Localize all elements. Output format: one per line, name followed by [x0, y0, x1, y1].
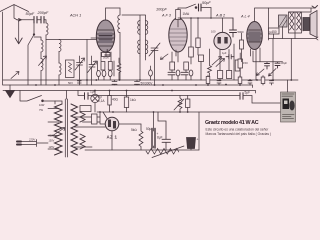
electrolytic block — [279, 15, 288, 27]
svg-text:50/300V: 50/300V — [141, 82, 154, 86]
OT winding X pattern right — [297, 12, 302, 30]
resistor box x191 — [189, 47, 194, 57]
secondary taps — [74, 117, 105, 147]
svg-text:5kΩ: 5kΩ — [131, 128, 137, 132]
svg-text:150: 150 — [243, 61, 248, 65]
svg-text:50µ: 50µ — [146, 127, 152, 131]
IFT1 wires down — [140, 56, 146, 80]
svg-text:1kΩ: 1kΩ — [130, 98, 136, 102]
cap below AL4 a — [265, 64, 270, 70]
resistor R11 — [124, 97, 128, 108]
speaker top wire — [289, 11, 312, 13]
svg-text:50pF: 50pF — [26, 12, 35, 16]
svg-text:150V: 150V — [49, 140, 55, 143]
resistor R3 zigzag — [117, 58, 121, 80]
fuse box 2 — [92, 114, 98, 124]
coupling box label — [269, 28, 280, 34]
oval cap AF3 b — [189, 70, 193, 76]
svg-text:30µF: 30µF — [281, 61, 287, 65]
svg-text:40Ω: 40Ω — [112, 98, 119, 102]
primary taps — [48, 109, 59, 150]
resistor R13 below AF3 — [170, 62, 175, 70]
svg-text:1MΩ: 1MΩ — [183, 12, 190, 16]
resistor R10 — [108, 96, 111, 106]
resistor R4 1M on riser — [176, 10, 181, 20]
svg-text:5000: 5000 — [238, 30, 244, 34]
svg-text:200pF: 200pF — [37, 11, 49, 15]
capacitor 1uF line — [78, 91, 240, 96]
resistor R2 below ACH1 — [108, 62, 112, 71]
cap below AF3 a — [168, 72, 175, 75]
gang trimmer A arrow — [75, 58, 85, 70]
electrolytic cap 1 — [152, 129, 155, 149]
resistor R1 below ACH1 — [101, 62, 105, 71]
transformer heater winding — [80, 107, 85, 149]
oscillator coil 2 upper — [59, 40, 61, 52]
IFT1 trimmer capacitor — [149, 43, 160, 56]
mains plug — [20, 140, 48, 147]
coil L4 (osc grid coil) — [119, 8, 121, 15]
padder arrow — [39, 56, 47, 66]
photo riser — [287, 80, 289, 92]
bypass cap oval 3 — [108, 70, 112, 76]
svg-text:220V: 220V — [28, 138, 35, 142]
resistor box x198 — [196, 38, 200, 48]
ground wire — [18, 20, 20, 44]
transformer primary winding — [55, 104, 63, 155]
heater line to photo — [97, 111, 281, 113]
switch blade top — [186, 4, 196, 8]
AF3 cluster wires — [172, 62, 201, 81]
wire risers right — [273, 39, 291, 81]
ground arrow — [15, 38, 22, 44]
wire y40 — [269, 34, 317, 39]
OT to speaker bottom wire — [294, 33, 296, 39]
tone switch blade 2 — [269, 69, 277, 77]
svg-text:5000: 5000 — [103, 56, 109, 60]
svg-text:50pF: 50pF — [202, 1, 211, 5]
bypass cap oval 1 — [97, 70, 101, 76]
tube AF3 (IF amp) — [169, 18, 187, 52]
OT winding X pattern left — [290, 12, 295, 30]
antenna arrow — [17, 19, 22, 22]
svg-text:1µF: 1µF — [222, 51, 227, 55]
power transformer core — [65, 91, 67, 158]
components right of AB2 — [233, 44, 235, 80]
oscillator trimmer box — [66, 60, 75, 78]
tube AF3 top cap riser — [177, 8, 179, 27]
capacitor 5uF — [240, 93, 243, 99]
output terminal arrow — [312, 6, 318, 9]
ON/OFF switch — [20, 91, 55, 105]
IFT1 coil primary bottom — [138, 40, 140, 54]
wire coil down — [45, 40, 47, 86]
electrolytic can — [187, 138, 196, 149]
voltage selector arrow — [52, 128, 65, 137]
photo of connector — [281, 92, 296, 122]
wire to AB2 top — [222, 18, 224, 33]
svg-text:Graetz modelo 41 W AC: Graetz modelo 41 W AC — [205, 120, 259, 126]
oscillator coil 2 lower — [59, 63, 61, 75]
svg-text:µ450: µ450 — [270, 30, 277, 34]
wire to antenna coil — [44, 20, 46, 23]
resistor plate AB2 — [240, 40, 244, 49]
chassis ground symbol — [9, 85, 11, 91]
oval cap IFT1 — [149, 70, 153, 76]
capacitor C1 50pF — [34, 17, 37, 24]
svg-text:Marcos Tartanowski del pais It: Marcos Tartanowski del pais Italia ( Gra… — [206, 132, 272, 136]
long vertical x87 — [86, 40, 88, 86]
cap between rails x117 — [112, 80, 117, 85]
AL4 pins — [251, 48, 261, 80]
left edge wire — [2, 12, 4, 85]
wire y62 below AL4 — [253, 51, 283, 63]
IFT1 coil secondary bottom — [146, 40, 148, 54]
tube AL4 (output pentode) — [247, 22, 263, 50]
tube ACH1 top cap wire — [106, 8, 121, 20]
speaker — [303, 18, 310, 31]
gang trimmer B arrow — [88, 61, 97, 73]
svg-text:0,1A: 0,1A — [98, 99, 105, 103]
cap above zigzag — [158, 112, 171, 150]
heater bus 2 — [3, 91, 256, 94]
cap between rails x137 — [135, 80, 140, 85]
small box right — [199, 55, 204, 62]
svg-text:100: 100 — [211, 30, 216, 34]
tube ACH1 cathode pins — [101, 52, 111, 61]
resistor R7 zigzag — [208, 49, 212, 80]
50V cap — [77, 81, 81, 83]
svg-text:A L 4: A L 4 — [240, 15, 250, 19]
svg-text:8µF: 8µF — [157, 136, 163, 140]
cap below AL4 b — [275, 63, 280, 68]
oscillator coil 1 upper — [34, 37, 41, 40]
capacitor C2 200pF — [41, 17, 44, 24]
svg-text:A F 3: A F 3 — [161, 14, 172, 18]
IFT1 coil secondary top — [146, 20, 148, 34]
svg-text:220V: 220V — [49, 135, 55, 138]
capacitor C3 top 50pF — [199, 4, 202, 11]
svg-text:A B 2: A B 2 — [215, 14, 226, 18]
top output wire — [269, 8, 316, 12]
output transformer — [289, 12, 302, 33]
filter resistor 5k — [139, 124, 143, 150]
capacitor C4 at AB2 — [230, 18, 237, 37]
svg-text:50V: 50V — [68, 81, 73, 85]
wire antenna to caps — [22, 19, 35, 21]
AZ1 wires — [100, 112, 141, 150]
AB2 lower wires — [220, 50, 229, 71]
resistor R12 — [186, 99, 190, 108]
tube ACH1 grid side wire — [91, 37, 96, 39]
antenna coil — [46, 23, 48, 35]
IFT1 coil primary top — [138, 20, 140, 34]
tube ACH1 (mixer) — [96, 20, 114, 52]
oscillator coil 1 lower — [41, 59, 43, 71]
resistor R8 cathode — [238, 59, 243, 68]
capacitor 1uF AB2 — [226, 55, 234, 60]
svg-text:5µF: 5µF — [245, 91, 251, 95]
oval cap AF3 a — [176, 70, 180, 76]
wire — [201, 8, 211, 19]
svg-text:7W: 7W — [39, 108, 43, 112]
fuse box 1 — [80, 106, 91, 112]
screen shield frame — [98, 61, 115, 76]
svg-text:ACH 1: ACH 1 — [69, 14, 81, 18]
AF3 pins — [172, 50, 178, 62]
wire coil to grid — [46, 35, 96, 40]
volume potentiometer — [178, 96, 182, 113]
grid resistor network AB2 — [191, 18, 198, 64]
bypass cap oval 2 — [102, 70, 106, 76]
band switch — [28, 20, 34, 85]
B+ rail — [3, 79, 298, 81]
svg-text:10W: 10W — [39, 103, 45, 107]
wire y18 — [178, 17, 233, 19]
tone switch blade 1 — [257, 69, 265, 76]
rectifier tube AZ1 — [105, 117, 119, 131]
svg-text:100pF: 100pF — [156, 8, 167, 12]
transformer secondary HV winding — [71, 104, 78, 155]
wave switch arrow — [11, 72, 19, 79]
AB2 diode plate 1 — [218, 37, 221, 44]
cluster wires — [99, 70, 111, 80]
resistor R5 — [218, 71, 223, 79]
svg-text:125V: 125V — [49, 146, 55, 149]
capacitor C5 5000 — [105, 50, 110, 56]
resistor R14 below AF3 — [184, 62, 189, 70]
gang trimmer A plates — [77, 63, 83, 66]
cap below AF3 b — [181, 72, 188, 75]
diode arrows — [212, 57, 222, 66]
svg-text:1µF: 1µF — [90, 90, 96, 94]
antenna — [0, 5, 29, 20]
AB2 diode plate 2 — [224, 37, 227, 44]
resistor R6 — [227, 71, 232, 79]
wire AL4 top bridge — [255, 8, 269, 40]
bottom bus — [85, 149, 199, 151]
gang trimmer B plates — [89, 65, 95, 68]
svg-text:AZ 1: AZ 1 — [107, 135, 118, 140]
pilot lamp — [91, 94, 99, 102]
wire top y8 — [178, 7, 186, 9]
tube AB2 (duodiode) — [214, 32, 231, 49]
bus caps row — [206, 77, 210, 84]
IF transformer 1 frame — [122, 15, 146, 56]
AGC arrow AF3 — [161, 54, 169, 60]
resistor zigzag bottom — [146, 149, 179, 155]
heater bus 1 — [3, 85, 253, 88]
wire — [37, 19, 41, 21]
svg-text:+: + — [197, 138, 199, 142]
